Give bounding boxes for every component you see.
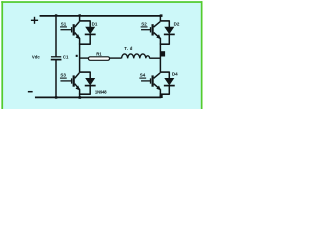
- svg-text:S2: S2: [141, 22, 147, 27]
- svg-text:1N948: 1N948: [95, 89, 107, 94]
- svg-text:S4: S4: [140, 73, 146, 78]
- svg-text:D4: D4: [172, 71, 178, 76]
- svg-text:D1: D1: [92, 21, 98, 26]
- svg-text:D2: D2: [174, 22, 180, 27]
- svg-text:R1: R1: [96, 52, 102, 57]
- svg-text:S3: S3: [60, 73, 66, 78]
- svg-text:S1: S1: [61, 22, 67, 27]
- svg-text:T. d: T. d: [124, 46, 132, 51]
- svg-text:Vdc: Vdc: [32, 55, 40, 60]
- svg-text:C1: C1: [63, 54, 69, 59]
